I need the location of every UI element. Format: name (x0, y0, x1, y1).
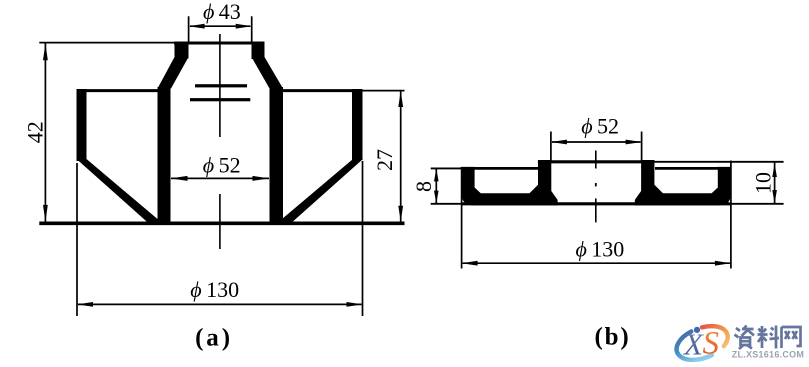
phi130 extension line right (362, 161, 364, 316)
svg-text:X: X (682, 326, 704, 361)
centerline dot (595, 183, 597, 186)
centerline upper (219, 34, 221, 137)
logo CJK char zi (735, 326, 801, 350)
groove section right (boss wall + channel + rim) (635, 160, 731, 205)
flange top edge right (283, 89, 363, 92)
flange wall right (section) (352, 89, 363, 160)
phi52 dimension line (171, 177, 269, 179)
arrow phi52 left (171, 176, 188, 181)
svg-text:ϕ 43: ϕ 43 (203, 0, 241, 24)
arrow phi52b left (551, 140, 567, 145)
phi52 dimension line (552, 141, 641, 143)
svg-text:ϕ 130: ϕ 130 (576, 236, 625, 261)
arrow phi130 left (77, 302, 93, 307)
bottom extension left (8 ref) (431, 203, 462, 205)
plate edge right / phi130 extension (730, 161, 732, 269)
bottom edge (462, 202, 731, 205)
neck taper right (section) (252, 57, 284, 89)
10 extension line (over rim) (655, 161, 784, 163)
arrow 10 bottom (772, 190, 777, 204)
centerline lower (219, 194, 221, 249)
neck wall left (section) (175, 42, 189, 59)
logo dot (694, 327, 700, 333)
arrow phi52 right (253, 176, 270, 181)
svg-text:ZL.XS1616.COM: ZL.XS1616.COM (732, 349, 804, 359)
svg-text:8: 8 (411, 181, 436, 192)
bottom edge line (39, 222, 404, 226)
phi43 dimension line (190, 25, 250, 27)
svg-text:27: 27 (372, 149, 397, 171)
logo CJK char wang (782, 327, 801, 348)
svg-text:ϕ 52: ϕ 52 (581, 113, 619, 138)
arrow phi130 right (347, 302, 363, 307)
phi130 dimension line (463, 262, 730, 264)
svg-text:10: 10 (751, 172, 776, 194)
flange diagonal right (section) (276, 159, 364, 225)
phi52 extension line right (641, 132, 643, 162)
plate top edge left (462, 167, 539, 170)
arrow 42 top (43, 43, 48, 60)
centerline upper (595, 151, 597, 169)
arrow 42 bottom (43, 205, 48, 222)
phi43 extension line left (188, 16, 190, 43)
extension line top-left (42 ref) (39, 42, 176, 44)
8 extension line (431, 167, 462, 169)
logo CJK char liao (758, 326, 780, 349)
svg-text:(a): (a) (195, 324, 233, 351)
arrow phi52b right (626, 140, 642, 145)
bottom extension right (10 ref) (731, 203, 784, 205)
top surface edge line (174, 42, 265, 45)
flange top edge left (77, 89, 159, 92)
svg-text:(b): (b) (595, 324, 631, 351)
arrow 27 bottom (398, 206, 403, 222)
svg-text:42: 42 (22, 121, 47, 143)
27 extension line (363, 90, 405, 92)
arrow 27 top (398, 91, 403, 107)
phi43 extension line right (251, 16, 253, 43)
arrow 8 top (434, 169, 439, 182)
svg-text:ϕ 130: ϕ 130 (190, 277, 239, 302)
neck wall right (section) (252, 42, 265, 60)
body wall left (section) (158, 87, 171, 225)
inner bar lower (190, 98, 250, 101)
logo swoosh orange arc (702, 326, 728, 346)
10 dimension line (774, 162, 776, 204)
plate edge left / phi130 extension (461, 167, 463, 269)
phi130 extension line left (76, 163, 78, 316)
plate top edge right (655, 167, 731, 170)
phi130 dimension line (78, 303, 362, 305)
centerline lower (595, 198, 597, 222)
arrow 10 top (772, 163, 777, 177)
svg-text:ϕ 52: ϕ 52 (203, 152, 241, 177)
arrow phi130b right (715, 261, 731, 266)
42 dimension line (44, 44, 46, 223)
flange diagonal left (section) (77, 159, 165, 225)
arrow phi130b left (462, 261, 478, 266)
neck taper left (section) (158, 57, 189, 89)
phi52 extension line left (550, 132, 552, 162)
arrow phi43 right (236, 24, 252, 29)
8 dimension line (435, 169, 437, 204)
groove section left (rim + channel + boss wall) (462, 160, 558, 205)
inner bar upper (195, 84, 247, 87)
svg-text:S: S (703, 326, 720, 362)
flange wall left (section) (77, 89, 87, 161)
arrow 8 bottom (434, 191, 439, 204)
arrow phi43 left (189, 24, 205, 29)
27 dimension line (400, 91, 402, 222)
logo swoosh blue arc (677, 332, 712, 360)
boss top edge (538, 160, 655, 163)
body wall right (section) (270, 87, 284, 225)
